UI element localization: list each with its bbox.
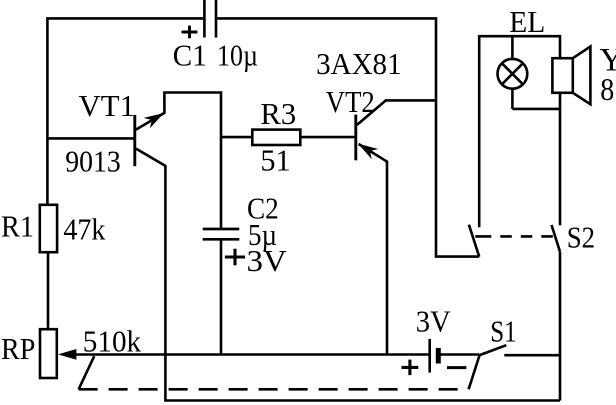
svg-text:9013: 9013 <box>65 143 121 178</box>
wire VT1 base <box>47 137 134 140</box>
speaker Y horn <box>573 47 591 105</box>
wire bus: battery to S1 pivot <box>438 353 479 356</box>
svg-text:VT1: VT1 <box>79 88 136 123</box>
potentiometer RP wiper arrow <box>58 349 76 360</box>
speaker Y body <box>552 58 572 93</box>
wire S1 fixed contact to right rail <box>504 354 560 357</box>
linkage dashed line S2 <box>475 235 553 238</box>
capacitor C2 top plate <box>203 228 240 231</box>
wire speaker bottom <box>559 93 562 109</box>
wire top rail right of C1 down to S2 corner <box>216 18 479 256</box>
svg-text:3AX81: 3AX81 <box>316 46 402 81</box>
enclosure box bottom <box>165 355 560 401</box>
lamp EL cross <box>502 63 523 84</box>
capacitor C1 left plate <box>203 0 206 38</box>
wire R3 to VT2 base <box>300 136 354 139</box>
transistor VT1 collector lead to mid vertical and C2 <box>136 93 221 228</box>
svg-text:8: 8 <box>600 71 614 107</box>
svg-text:510k: 510k <box>83 323 142 358</box>
potentiometer RP body <box>40 329 57 378</box>
transistor VT1 emitter lead <box>136 149 165 355</box>
svg-text:S1: S1 <box>490 314 516 349</box>
svg-text:R3: R3 <box>260 96 296 131</box>
transistor VT2 emitter arrow <box>358 144 378 160</box>
wire EL branch left vertical and top <box>479 36 560 227</box>
svg-text:EL: EL <box>509 4 545 39</box>
battery polarity plus <box>402 360 419 376</box>
linkage diagonal at S1 <box>469 355 480 389</box>
svg-text:47k: 47k <box>63 212 105 247</box>
switch S2 left blade <box>469 225 479 257</box>
battery negative plate <box>436 348 441 364</box>
transistor VT1 base bar <box>133 115 136 166</box>
C2 polarity plus <box>225 249 245 265</box>
svg-text:51: 51 <box>260 143 290 178</box>
svg-text:R1: R1 <box>1 209 34 244</box>
transistor VT2 collector lead <box>357 100 436 125</box>
svg-text:10µ: 10µ <box>217 38 258 73</box>
battery minus sign <box>447 366 466 369</box>
C1 polarity plus <box>182 26 198 39</box>
wire S2 right upper <box>559 109 562 225</box>
wire bus: wiper to battery positive plate <box>74 353 430 356</box>
resistor R3 <box>252 130 300 145</box>
svg-text:C1: C1 <box>173 38 207 73</box>
wire top-left: top rail and left rail down to R1 <box>47 18 203 205</box>
resistor R1 <box>40 205 57 252</box>
svg-text:3V: 3V <box>416 304 452 339</box>
linkage diagonal at RP <box>79 356 95 389</box>
wire S2 right lower to box corner <box>559 252 562 401</box>
wire C2 to bus <box>220 240 223 355</box>
switch S2 right blade <box>552 225 561 252</box>
svg-text:VT2: VT2 <box>326 84 375 119</box>
wire R1 to RP <box>47 252 50 330</box>
svg-text:RP: RP <box>1 331 35 366</box>
linkage dashed line bottom <box>79 388 469 391</box>
lamp EL circle <box>498 59 528 89</box>
capacitor C1 right plate <box>215 0 218 38</box>
wire lamp top <box>511 36 514 59</box>
svg-text:S2: S2 <box>567 219 595 254</box>
transistor VT2 base bar <box>354 115 357 161</box>
transistor VT2 emitter lead <box>359 144 387 355</box>
battery positive plate <box>428 339 431 373</box>
wire lamp bottom <box>511 89 514 109</box>
capacitor C2 bottom plate <box>203 238 240 241</box>
transistor VT1 collector arrow <box>144 113 164 128</box>
switch S1 blade <box>479 345 506 355</box>
wire R3 tap <box>221 136 252 139</box>
wire EL branch bottom <box>512 108 560 111</box>
svg-text:3V: 3V <box>247 243 288 278</box>
